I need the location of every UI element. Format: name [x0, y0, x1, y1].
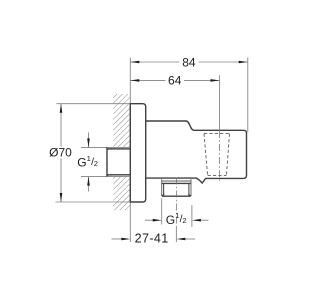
wire wall face / extension line x=130.3	[129, 58, 131, 243]
svg-text:G1/2: G1/2	[166, 211, 187, 227]
wall hatch section	[106, 94, 130, 210]
outlet centerline	[175, 178, 177, 227]
flange (escutcheon Ø70)	[130, 104, 145, 202]
svg-text:G1/2: G1/2	[77, 154, 98, 169]
dimension 84	[130, 58, 248, 133]
svg-text:84: 84	[182, 55, 196, 69]
svg-text:Ø70: Ø70	[49, 146, 72, 160]
holder socket hidden outline (dashed)	[204, 134, 230, 176]
inlet thread G1/2 (behind wall)	[106, 147, 130, 176]
svg-text:27-41: 27-41	[135, 232, 169, 246]
dimension 27-41	[112, 238, 196, 240]
body with holder	[146, 121, 247, 183]
dimension G1/2 bottom (outlet)	[145, 198, 209, 227]
dimension Ø70	[56, 104, 131, 202]
dimension G1/2 left (inlet)	[81, 133, 106, 192]
outlet thread G1/2 (bottom)	[162, 179, 191, 196]
dimension 64	[130, 75, 219, 131]
holder socket centerline	[219, 131, 221, 182]
svg-text:64: 64	[168, 74, 182, 88]
